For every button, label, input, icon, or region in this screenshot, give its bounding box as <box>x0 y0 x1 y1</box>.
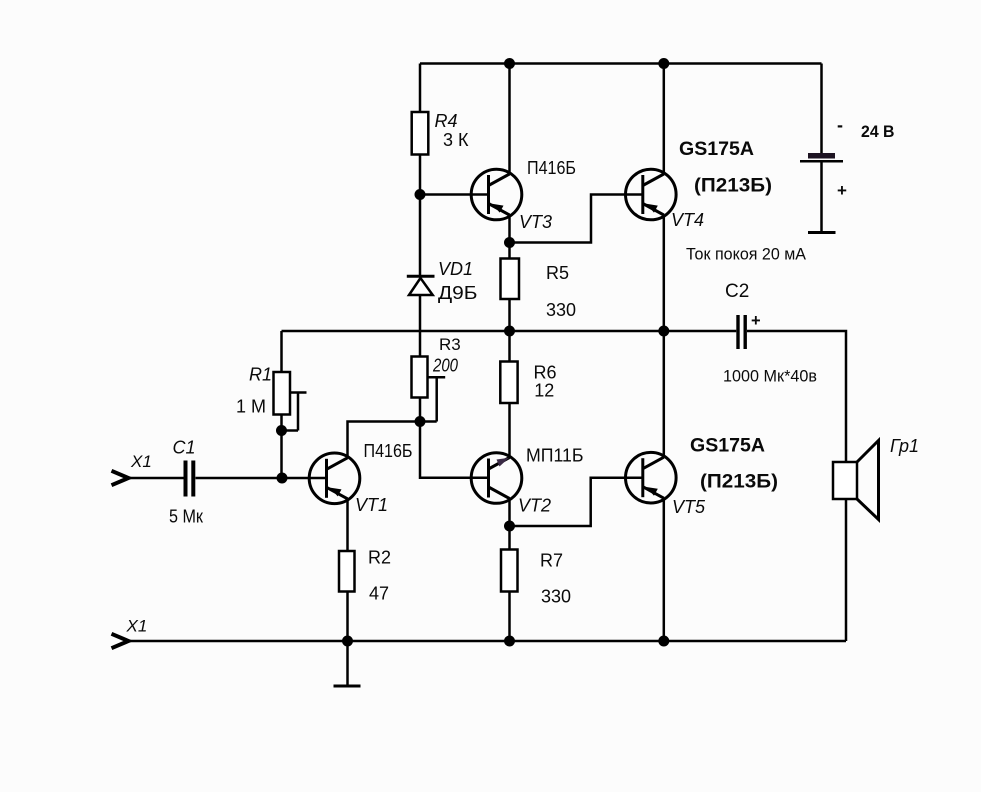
svg-text:24 В: 24 В <box>861 123 895 141</box>
resistor R3 (trimmer) <box>412 335 461 398</box>
svg-text:330: 330 <box>541 587 571 607</box>
node VT1 base / input <box>277 473 288 484</box>
svg-text:R1: R1 <box>249 365 272 385</box>
wire top bus <box>420 62 822 65</box>
wire R5 bottom lead <box>508 299 511 331</box>
diode VD1 <box>407 259 478 303</box>
svg-text:5 Мк: 5 Мк <box>169 507 203 527</box>
svg-text:330: 330 <box>546 300 576 320</box>
wire VT3-VT4 coupling <box>510 195 643 243</box>
wire R3 bottom lead <box>419 398 422 422</box>
wire mid bus <box>282 330 737 333</box>
svg-text:200: 200 <box>432 356 458 376</box>
capacitor C1 <box>169 438 203 527</box>
wire VT1 emitter lead <box>346 501 349 552</box>
svg-text:Гр1: Гр1 <box>890 436 919 456</box>
wire R5 top lead <box>508 243 511 259</box>
node top bus / VT3 collector <box>504 58 515 69</box>
transistor VT3 <box>471 158 576 232</box>
svg-text:12: 12 <box>534 380 554 400</box>
svg-text:GS175A: GS175A <box>690 436 765 457</box>
wire battery top lead <box>820 64 823 154</box>
svg-text:(П213Б): (П213Б) <box>700 472 778 493</box>
svg-text:VT3: VT3 <box>519 212 552 232</box>
wire speaker to bottom bus <box>845 499 848 641</box>
svg-text:1 М: 1 М <box>236 397 266 417</box>
wire VT4 collector lead <box>663 64 666 174</box>
wire R1 bottom lead <box>280 415 283 479</box>
node bottom bus / VT5 emitter <box>658 636 669 647</box>
node R3 / VT1 collector <box>415 416 426 427</box>
wire VT5 collector lead <box>663 331 666 457</box>
wire VT2-VT5 coupling <box>510 478 643 526</box>
connector X1 bottom arrow <box>112 634 129 648</box>
wire VT1 collector to R3 node <box>348 422 437 458</box>
svg-text:VT2: VT2 <box>518 496 551 516</box>
node mid bus / VT4 emitter <box>658 326 669 337</box>
wire VT4 emitter lead <box>663 216 666 332</box>
svg-text:П416Б: П416Б <box>364 441 413 461</box>
node R1 wiper <box>276 425 287 436</box>
node VT3 base / R4 <box>415 189 426 200</box>
svg-text:+: + <box>837 181 847 200</box>
wire R6 top lead <box>508 331 511 362</box>
speaker Гр1 <box>833 436 919 520</box>
wire VT2 emitter lead <box>508 500 511 526</box>
svg-text:R7: R7 <box>540 551 563 571</box>
capacitor C2 <box>723 281 817 386</box>
svg-text:C1: C1 <box>173 438 196 458</box>
svg-text:Д9Б: Д9Б <box>438 283 478 303</box>
ground <box>334 685 361 688</box>
wire R4 bottom lead <box>419 155 422 196</box>
svg-text:(П213Б): (П213Б) <box>694 176 772 197</box>
node bottom bus / R7 <box>504 636 515 647</box>
wire R1 wiper <box>282 393 307 431</box>
svg-text:X1: X1 <box>130 452 152 471</box>
resistor R5 <box>501 259 577 321</box>
svg-text:GS175A: GS175A <box>679 139 754 160</box>
battery GB 24V <box>800 115 895 233</box>
svg-text:Ток покоя 20 мА: Ток покоя 20 мА <box>686 245 807 264</box>
wire R6 to VT2 collector <box>508 403 511 457</box>
node VT3 emitter / R5 <box>504 237 515 248</box>
wire VT2 base riser <box>420 422 489 478</box>
wire VD1 anode lead <box>419 195 422 275</box>
svg-text:VT1: VT1 <box>355 495 388 515</box>
svg-text:C2: C2 <box>725 281 749 302</box>
transistor VT4 <box>626 169 705 230</box>
svg-text:МП11Б: МП11Б <box>526 446 584 466</box>
svg-text:+: + <box>751 312 761 330</box>
svg-text:1000 Мк*40в: 1000 Мк*40в <box>723 367 817 386</box>
wire bottom bus <box>130 640 846 643</box>
resistor R7 <box>501 550 571 607</box>
svg-text:R2: R2 <box>368 548 391 568</box>
wire C1 to VT1 base <box>196 477 327 480</box>
svg-text:-: - <box>837 115 843 135</box>
resistor R6 <box>500 362 556 404</box>
node VT2 emitter / R7 <box>504 521 515 532</box>
svg-text:47: 47 <box>369 584 389 604</box>
wire battery mid lead <box>820 163 823 232</box>
wire R7 top lead <box>508 526 511 550</box>
connector X1 top arrow <box>112 471 129 485</box>
wire R4 top lead <box>419 64 422 113</box>
svg-text:R5: R5 <box>546 263 569 283</box>
wire R1 top lead <box>280 331 283 372</box>
svg-text:VT5: VT5 <box>672 497 706 517</box>
node top bus / VT4 collector <box>658 58 669 69</box>
transistor VT1 <box>309 441 412 515</box>
svg-text:X1: X1 <box>126 617 148 636</box>
svg-text:3 К: 3 К <box>443 130 469 150</box>
wire R2 bottom lead <box>346 592 349 642</box>
wire VT3 base <box>420 193 489 196</box>
wire R7 bottom lead <box>508 592 511 642</box>
wire VT3 emitter lead <box>508 216 511 244</box>
wire input to C1 <box>130 477 184 480</box>
resistor R1 (trimmer) <box>236 365 290 417</box>
resistor R2 <box>339 548 391 604</box>
wire ground lead <box>346 641 349 685</box>
svg-text:VD1: VD1 <box>438 259 473 279</box>
node mid bus / R5-R6 <box>504 326 515 337</box>
svg-text:R4: R4 <box>435 111 458 131</box>
svg-text:П416Б: П416Б <box>527 158 576 178</box>
wire VT3 collector lead <box>508 64 511 174</box>
node bottom bus / R2-ground <box>342 636 353 647</box>
svg-text:R3: R3 <box>439 335 461 354</box>
svg-text:VT4: VT4 <box>671 210 704 230</box>
wire C2 to speaker <box>747 331 846 462</box>
wire VD1 to R3 <box>419 296 422 357</box>
transistor VT5 <box>626 452 707 517</box>
resistor R4 <box>412 111 469 155</box>
transistor VT2 <box>471 446 583 516</box>
wire R3 wiper <box>428 377 446 421</box>
wire VT5 emitter lead <box>663 499 666 641</box>
